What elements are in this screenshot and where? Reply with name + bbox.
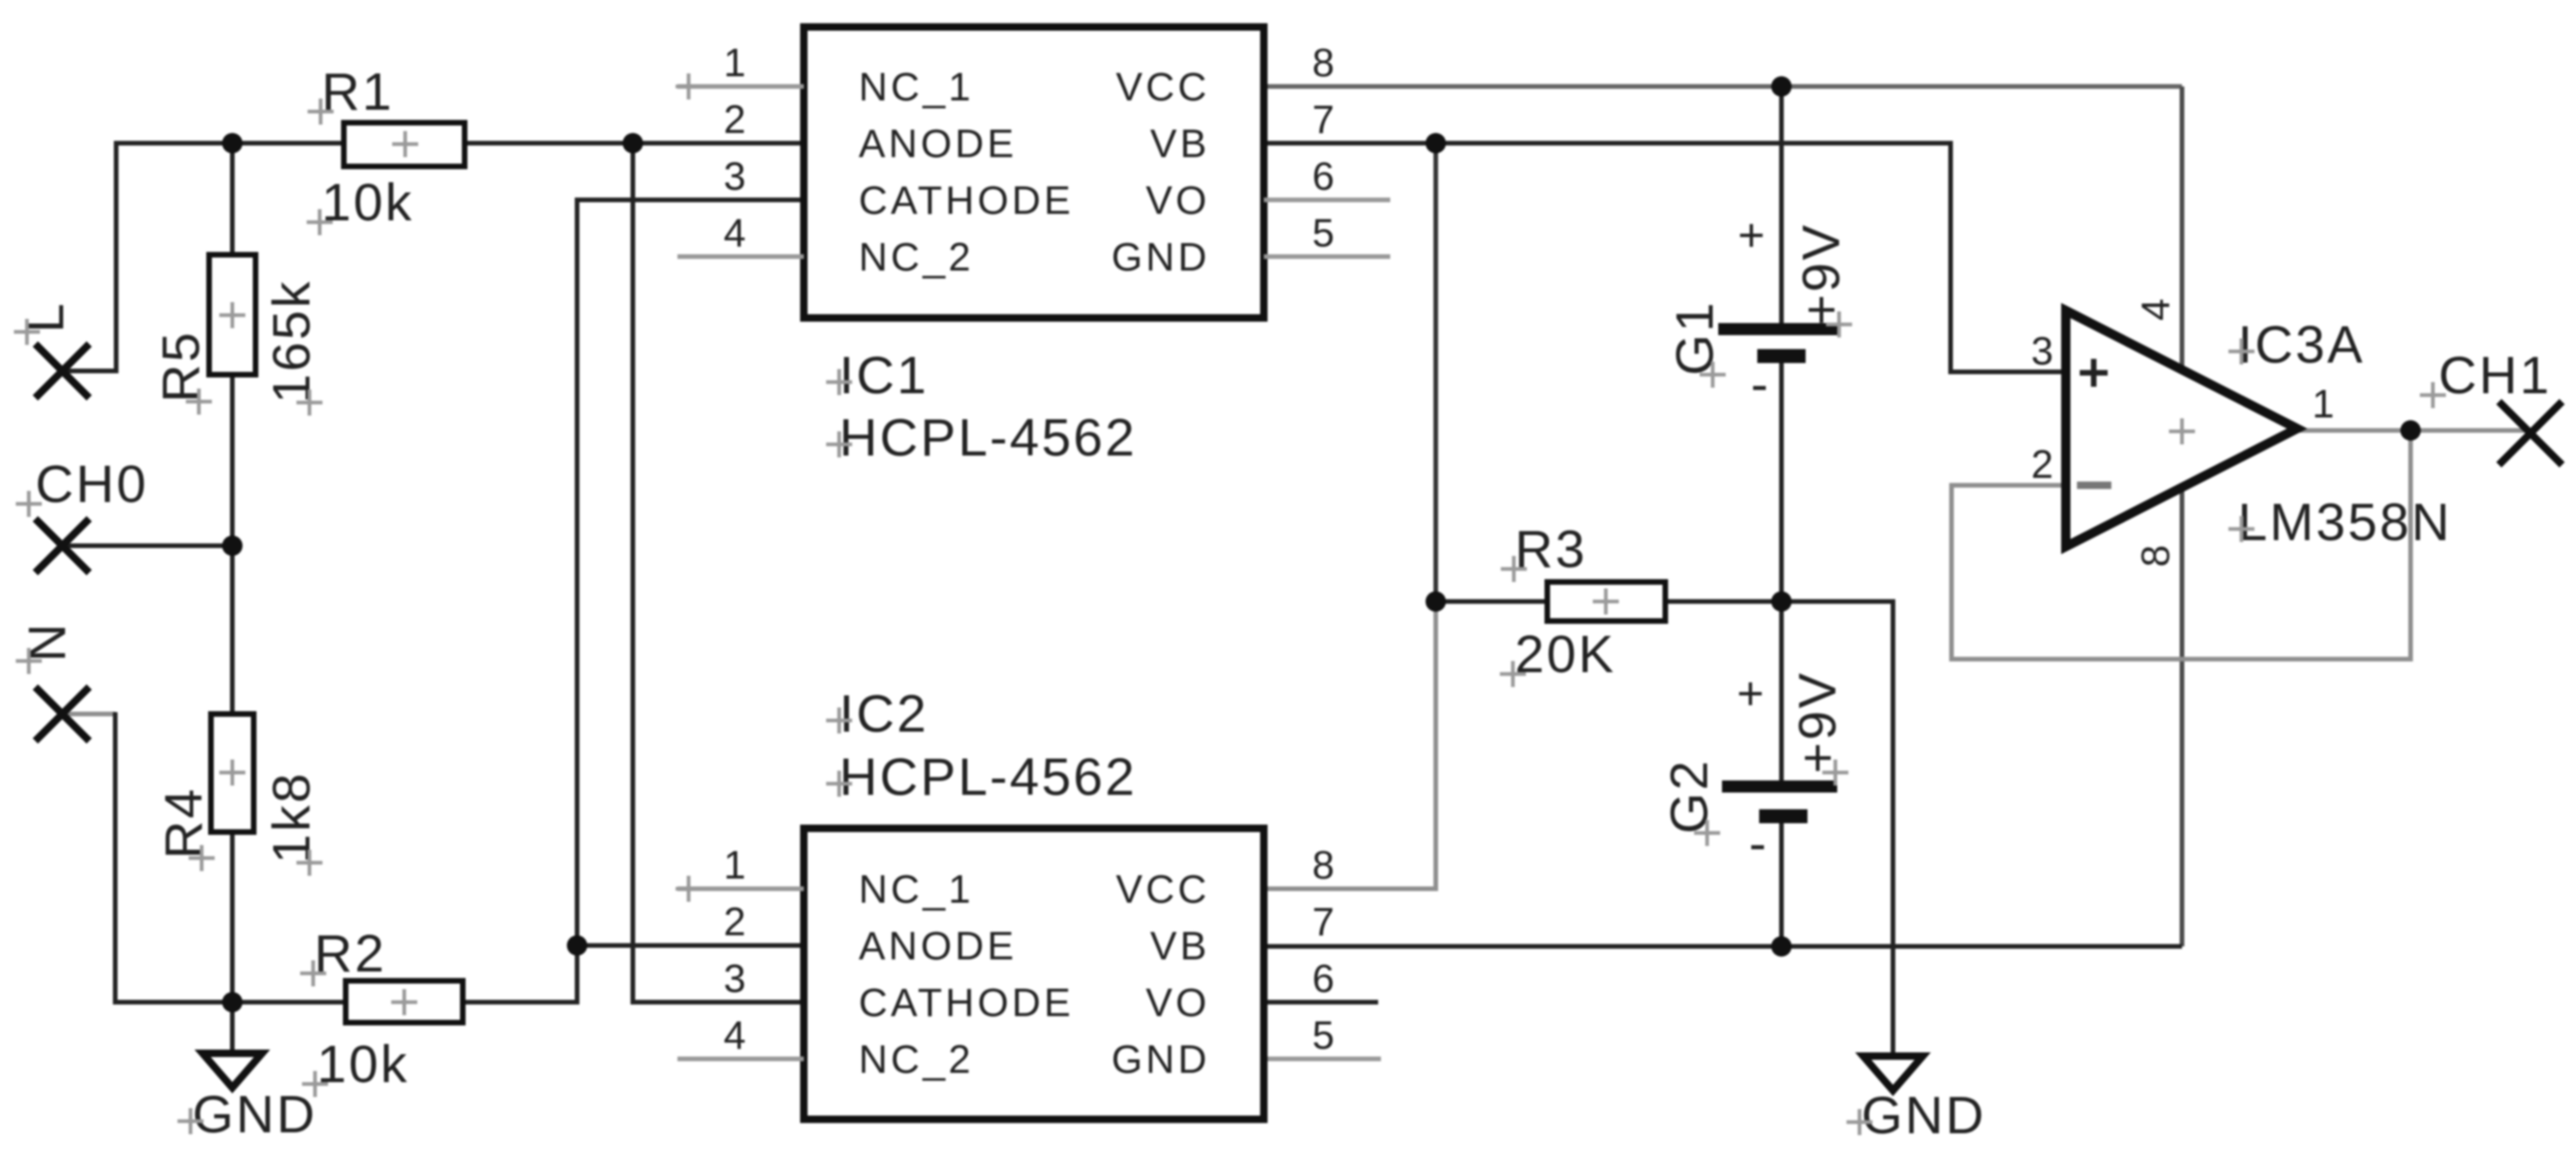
svg-text:-: -	[1751, 354, 1768, 413]
svg-text:NC_1: NC_1	[859, 65, 974, 110]
svg-text:CATHODE: CATHODE	[859, 178, 1074, 223]
svg-text:VO: VO	[1146, 178, 1210, 223]
IC1 pin 1 stub	[677, 85, 804, 89]
wire IC1 pin3 vertical down to junction	[577, 200, 804, 945]
wire R4 bottom to node	[230, 832, 235, 1002]
svg-text:5: 5	[1312, 211, 1337, 256]
op-amp value label LM358N	[2228, 493, 2451, 552]
svg-text:10k: 10k	[322, 173, 414, 232]
svg-text:6: 6	[1312, 154, 1337, 199]
wire N terminal horizontal	[62, 712, 115, 717]
svg-text:IC2: IC2	[839, 684, 928, 744]
svg-text:G1: G1	[1665, 300, 1725, 376]
wire CH0 to R5/R4 node	[62, 544, 232, 548]
wire G2 bottom stem	[1780, 823, 1784, 946]
svg-text:VCC: VCC	[1116, 867, 1210, 912]
wire battery node to GND2 column	[1781, 601, 1893, 1056]
IC2 HCPL-4562 box	[676, 828, 1264, 1119]
svg-text:10k: 10k	[317, 1035, 409, 1094]
resistor R4 labels	[154, 772, 322, 876]
IC2 pin numbers	[724, 843, 1338, 1058]
svg-text:+9V: +9V	[1788, 670, 1847, 773]
op-amp reference label IC3A	[2228, 315, 2365, 375]
svg-text:ANODE: ANODE	[859, 122, 1017, 166]
IC1 pin 5 stub	[1264, 255, 1390, 259]
svg-text:CH1: CH1	[2438, 346, 2552, 405]
svg-text:7: 7	[1312, 98, 1337, 142]
svg-text:7: 7	[1312, 900, 1337, 945]
IC2 pin 5 stub	[1268, 1057, 1381, 1062]
battery G1	[1718, 209, 1841, 413]
svg-text:NC_2: NC_2	[859, 1037, 974, 1082]
resistor R4	[211, 714, 254, 832]
IC1 pin names	[859, 65, 1210, 280]
svg-text:R4: R4	[154, 786, 214, 859]
terminal L	[14, 301, 89, 398]
op-amp pin numbers	[2031, 296, 2338, 567]
svg-text:3: 3	[2031, 329, 2057, 374]
IC1 pin 6 stub	[1264, 198, 1390, 203]
resistor R1	[344, 123, 465, 166]
wire R3 left lead	[1436, 600, 1547, 604]
svg-text:VCC: VCC	[1116, 65, 1210, 110]
svg-text:+: +	[1738, 209, 1765, 261]
IC1 pin 4 stub	[677, 255, 804, 259]
svg-text:N: N	[18, 621, 77, 662]
ground GND1	[177, 1053, 317, 1144]
wire CH0 node down to R4	[230, 546, 235, 714]
svg-text:1: 1	[2312, 382, 2337, 427]
svg-text:5: 5	[1312, 1013, 1337, 1058]
svg-text:2: 2	[2031, 443, 2057, 487]
svg-text:3: 3	[724, 154, 749, 199]
wire R1 right to IC1 pin 2	[465, 141, 804, 146]
terminal CH0	[16, 455, 149, 573]
svg-text:+: +	[1737, 667, 1764, 720]
svg-text:3: 3	[724, 957, 749, 1001]
IC2 pin names	[859, 867, 1210, 1082]
svg-text:G2: G2	[1660, 759, 1719, 834]
wire R3 right lead to battery column	[1665, 600, 1781, 604]
svg-text:20K: 20K	[1515, 625, 1616, 684]
svg-text:8: 8	[1312, 843, 1337, 888]
svg-text:GND: GND	[192, 1085, 317, 1144]
op-amp IC3A triangle	[2066, 311, 2297, 547]
wire R5 bottom stem to CH0 node	[230, 375, 235, 546]
IC2 pin 6 stub	[1268, 1000, 1378, 1005]
svg-text:HCPL-4562: HCPL-4562	[839, 408, 1137, 468]
terminal N	[16, 621, 89, 741]
wire L terminal to R1 left	[62, 143, 344, 371]
resistor R2 labels	[300, 924, 409, 1097]
wire op-amp V+ / V- vertical	[2180, 86, 2185, 946]
svg-text:HCPL-4562: HCPL-4562	[839, 747, 1137, 807]
wire VB node down to R3 left	[1434, 143, 1439, 601]
battery G2 labels	[1660, 670, 1848, 846]
svg-text:1: 1	[724, 41, 749, 86]
svg-text:4: 4	[2134, 296, 2178, 321]
svg-text:165k: 165k	[262, 279, 322, 403]
svg-text:L: L	[16, 301, 75, 333]
svg-text:4: 4	[724, 211, 749, 256]
ground GND2	[1847, 1056, 1986, 1145]
battery G2	[1722, 667, 1837, 872]
wire R3 left node down to IC2 VCC pin 8	[1268, 601, 1436, 889]
svg-text:IC1: IC1	[839, 346, 928, 405]
IC1 HCPL-4562 box	[676, 27, 1264, 318]
wire node to GND1	[230, 1002, 235, 1053]
resistor R3	[1547, 582, 1665, 621]
svg-text:VB: VB	[1150, 924, 1210, 969]
wire IC1 pin 7 to op-amp non-inverting input	[1264, 143, 2066, 372]
resistor R3 labels	[1500, 520, 1616, 687]
wire R2 right jog up to junction	[463, 945, 577, 1002]
IC1 value label	[826, 408, 1137, 468]
resistor R2	[346, 981, 463, 1023]
svg-text:GND: GND	[1111, 1037, 1210, 1082]
wire IC1 pin2 node down to IC2 pin 3	[633, 143, 804, 1002]
terminal CH1	[2420, 346, 2562, 465]
IC2 pin 1 stub	[677, 887, 804, 892]
svg-text:6: 6	[1312, 957, 1337, 1001]
svg-text:ANODE: ANODE	[859, 924, 1017, 969]
wire G2 top stem	[1780, 601, 1784, 781]
svg-text:4: 4	[724, 1013, 749, 1058]
svg-text:LM358N: LM358N	[2238, 493, 2451, 552]
IC2 value label	[826, 747, 1137, 807]
IC1 reference label	[826, 346, 928, 405]
resistor R5	[209, 255, 256, 375]
svg-text:+9V: +9V	[1792, 222, 1851, 325]
svg-text:CH0: CH0	[35, 455, 149, 514]
wire bottom rail IC2 pin 7 to op-amp V-	[1268, 945, 2182, 949]
IC2 pin 4 stub	[677, 1057, 804, 1062]
svg-text:NC_2: NC_2	[859, 235, 974, 280]
wire junction to IC2 pin 2	[577, 944, 804, 948]
svg-text:-: -	[1749, 813, 1767, 872]
svg-text:1: 1	[724, 843, 749, 888]
battery G1 labels	[1665, 222, 1852, 388]
resistor R5 labels	[151, 279, 322, 416]
svg-text:GND: GND	[1861, 1086, 1986, 1145]
wire N down to bottom node	[115, 712, 232, 1002]
wire VCC rail IC1 pin 8	[1264, 85, 2182, 89]
svg-text:NC_1: NC_1	[859, 867, 974, 912]
svg-text:VO: VO	[1146, 981, 1210, 1025]
wire node to R2 left	[232, 1000, 346, 1005]
svg-text:2: 2	[724, 98, 749, 142]
wire G1 top stem	[1780, 86, 1784, 324]
svg-text:8: 8	[2134, 542, 2178, 567]
wire G1 bottom stem	[1780, 363, 1784, 601]
svg-text:1k8: 1k8	[262, 772, 322, 864]
svg-text:CATHODE: CATHODE	[859, 981, 1074, 1025]
svg-text:VB: VB	[1150, 122, 1210, 166]
resistor R1 labels	[307, 62, 414, 235]
svg-text:2: 2	[724, 900, 749, 945]
wire op-amp output to CH1	[2297, 429, 2524, 433]
svg-text:GND: GND	[1111, 235, 1210, 280]
svg-text:IC3A: IC3A	[2238, 315, 2365, 375]
svg-text:8: 8	[1312, 41, 1337, 86]
wire op-amp feedback loop	[1952, 430, 2411, 659]
IC2 reference label	[826, 684, 928, 744]
svg-text:R5: R5	[151, 330, 211, 403]
IC1 pin numbers	[724, 41, 1338, 256]
wire R5 top stem	[230, 143, 235, 255]
